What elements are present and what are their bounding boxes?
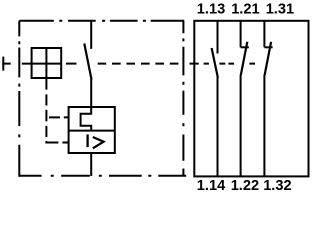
svg-text:1.31: 1.31 xyxy=(266,2,294,18)
svg-text:1.14: 1.14 xyxy=(197,178,226,194)
svg-text:1.32: 1.32 xyxy=(263,178,291,194)
boundary bottom (dash-dot) xyxy=(19,175,186,177)
svg-text:1.22: 1.22 xyxy=(231,178,259,194)
thermal overload release symbol xyxy=(81,107,92,131)
svg-text:1.21: 1.21 xyxy=(231,2,259,18)
boundary right (dash-dot) xyxy=(182,21,184,176)
contact 1.21-1.22 top terminal xyxy=(240,21,242,48)
contact 1.31-1.32 top terminal xyxy=(263,21,265,48)
contact 1.31-1.32 NC seat bar xyxy=(264,46,272,48)
boundary left (dash-dot) xyxy=(18,21,20,177)
release box outline xyxy=(69,107,115,153)
release box divider xyxy=(69,130,115,132)
magnetic release I xyxy=(86,134,88,147)
contact 1.21-1.22 NC seat bar xyxy=(241,46,249,48)
svg-text:1.13: 1.13 xyxy=(197,2,225,18)
contact 1.31-1.32 NC blade xyxy=(265,42,272,75)
linkage dashes square to main contact xyxy=(66,63,77,65)
wire release box to boundary bottom xyxy=(90,153,92,176)
trip linkage branch to thermal release xyxy=(49,116,69,118)
trip linkage elbow to magnetic release xyxy=(46,141,68,143)
contact 1.13-1.14 NO blade xyxy=(212,48,218,78)
mechanism square cross vertical xyxy=(45,48,47,78)
contact 1.21-1.22 NC blade xyxy=(241,42,248,75)
magnetic release > xyxy=(93,137,104,148)
trip linkage square to releases (dashed vertical) xyxy=(45,78,47,137)
linkage dashes inside contact block xyxy=(190,63,256,65)
main contact top wire xyxy=(90,21,92,49)
mechanism square cross horizontal xyxy=(32,63,62,65)
contact 1.21-1.22 bottom terminal xyxy=(240,75,242,177)
wire main contact to release box xyxy=(90,79,92,107)
mechanism square (operating mechanism) xyxy=(32,48,62,78)
contact 1.13-1.14 bottom terminal xyxy=(217,77,219,176)
main contact blade xyxy=(84,44,91,80)
manual operator tick xyxy=(2,57,4,71)
linkage dashes to right boundary xyxy=(98,63,179,65)
contact 1.13-1.14 top terminal xyxy=(217,21,219,54)
auxiliary contact block outline xyxy=(194,21,308,177)
wire operator to boundary (dashed link) xyxy=(2,63,31,65)
boundary top (dash-dot) xyxy=(19,20,184,22)
contact 1.31-1.32 bottom terminal xyxy=(263,75,265,177)
